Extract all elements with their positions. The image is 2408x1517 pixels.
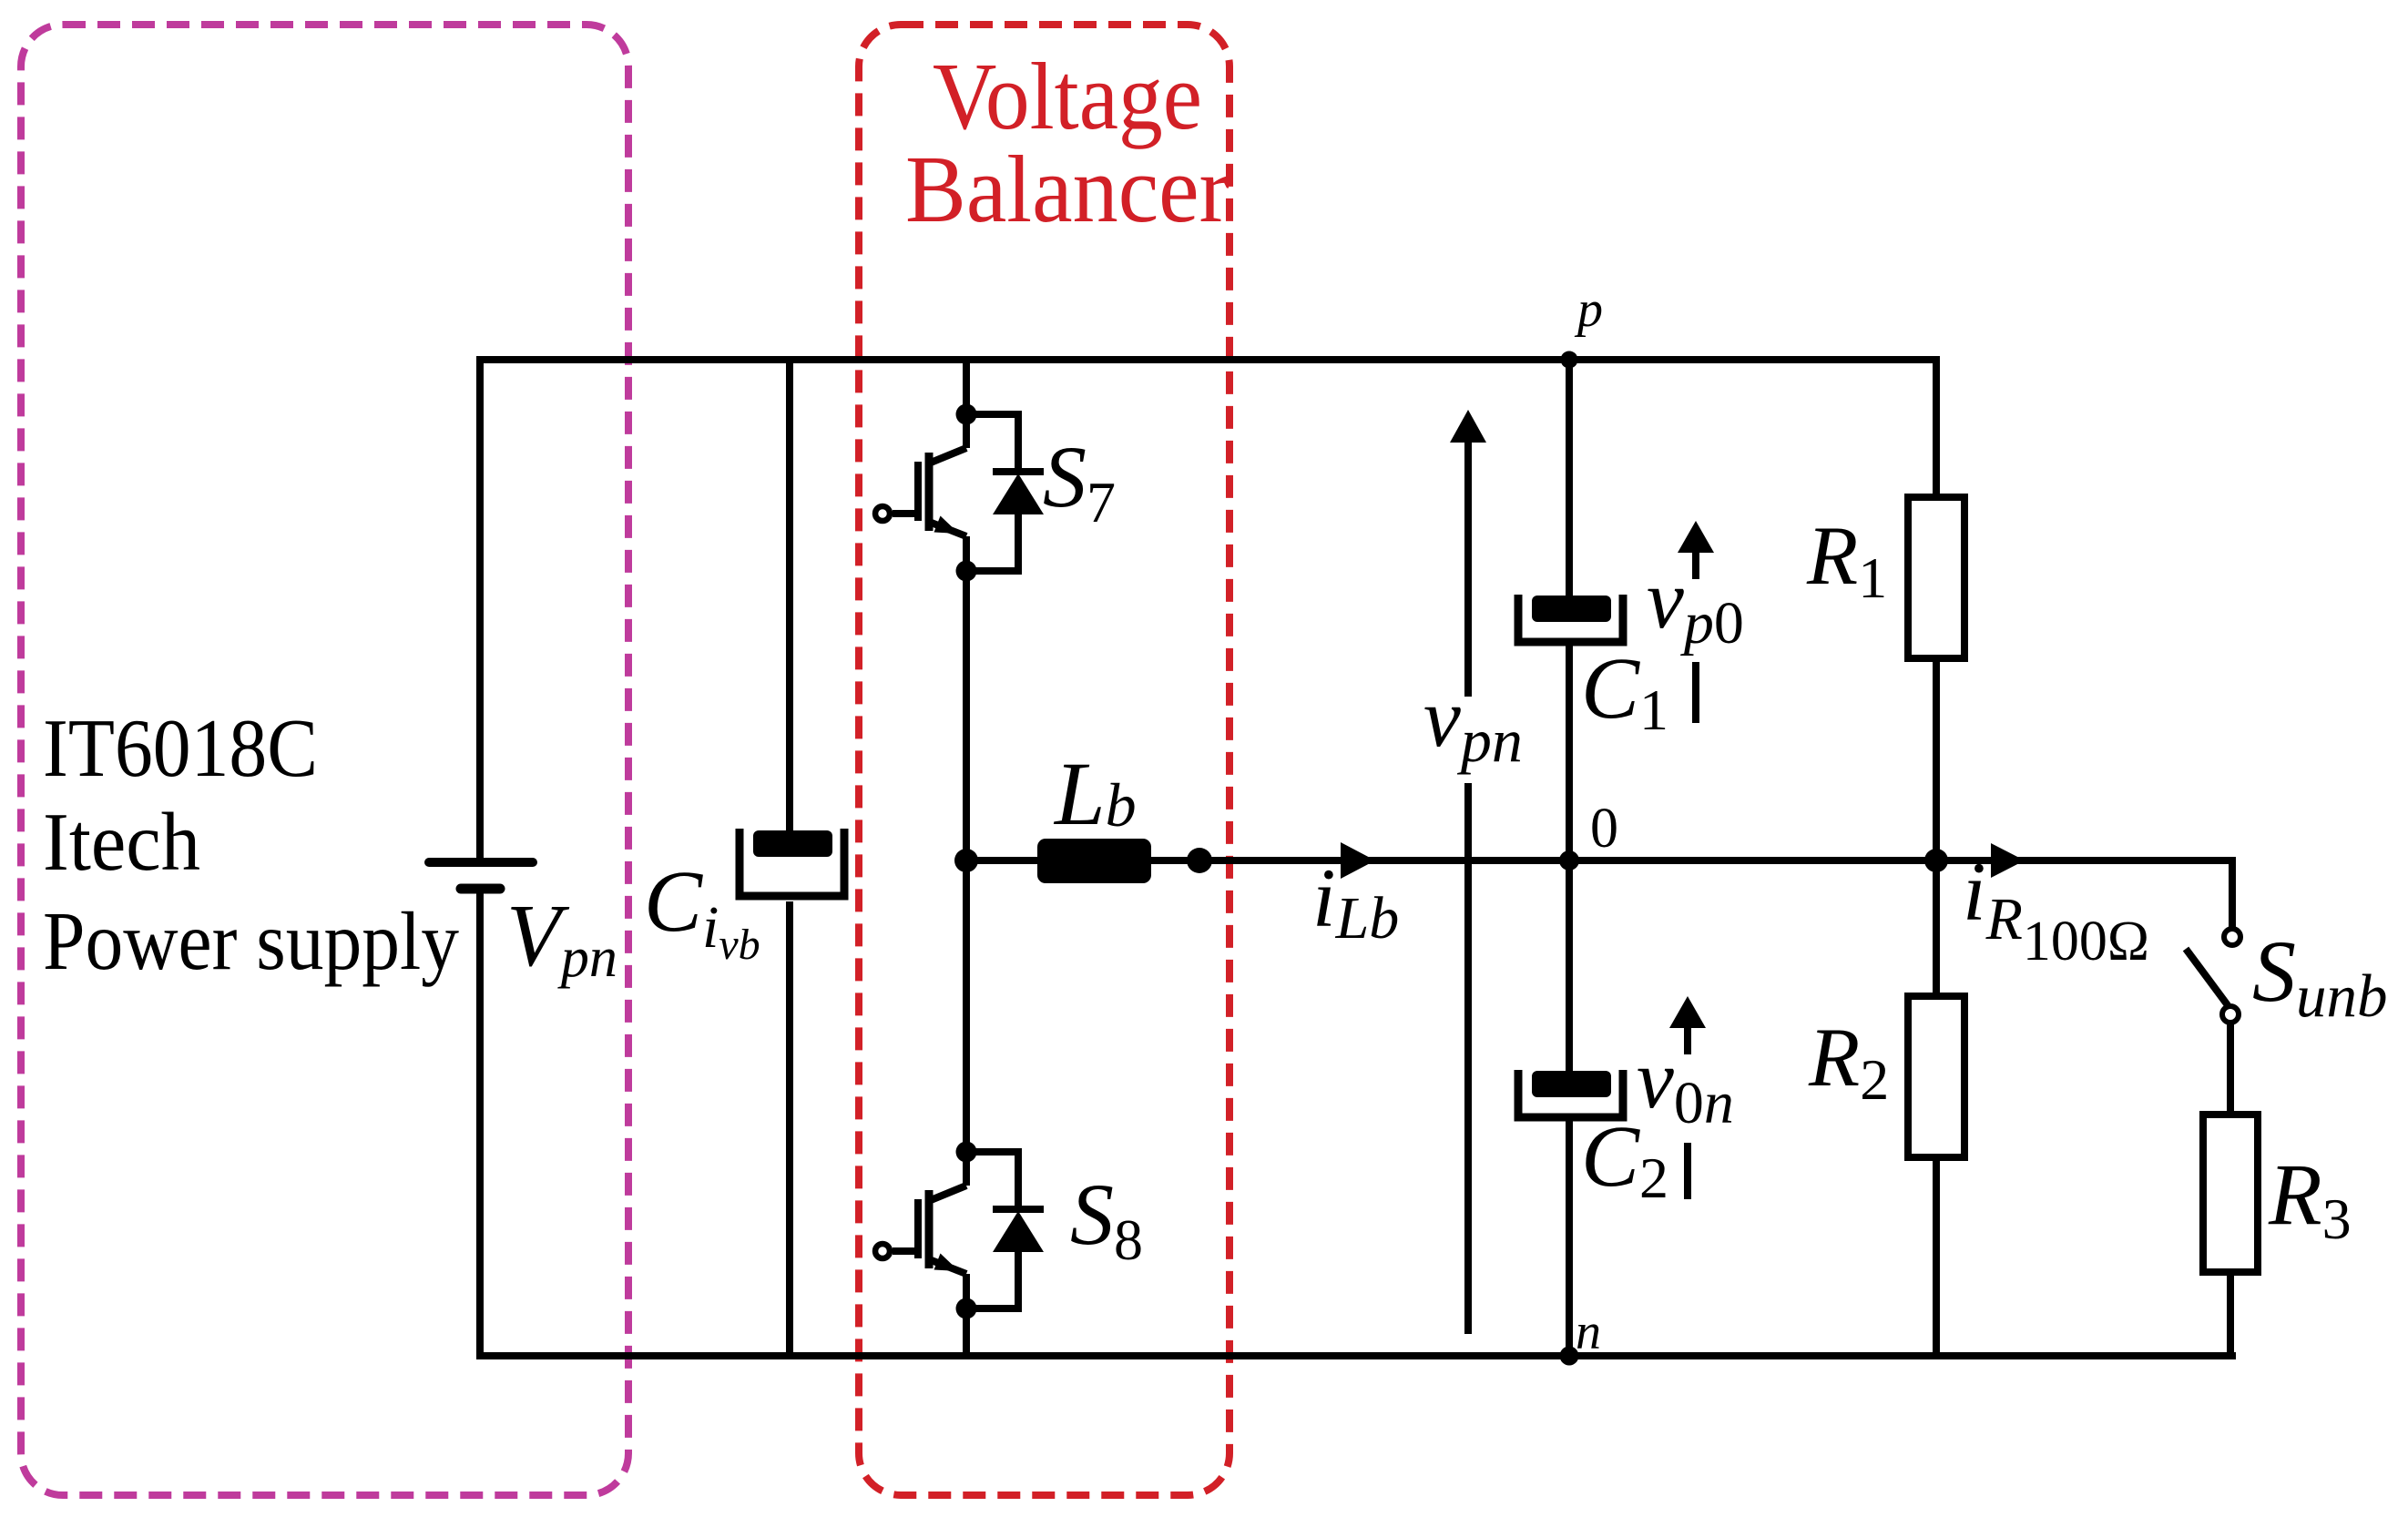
node p [1561, 351, 1578, 369]
transistor S8 IGBT with diode [875, 1142, 1044, 1319]
svg-text:n: n [1576, 1304, 1601, 1360]
voltage balancer dashed box [859, 25, 1230, 1495]
node dot IGBT mid junction [954, 849, 978, 872]
wire Civb branch bottom [786, 901, 793, 1356]
svg-text:p: p [1574, 281, 1603, 338]
wire mid rail left [966, 857, 1037, 864]
wire IGBT leg upper [963, 360, 970, 448]
transistor S7 IGBT with diode [875, 404, 1044, 582]
svg-text:0: 0 [1590, 798, 1618, 860]
node dot R junction [1924, 849, 1948, 872]
svg-text:Voltage: Voltage [933, 43, 1202, 149]
inductor Lb [1037, 839, 1151, 883]
switch Sunb [2186, 929, 2240, 1023]
wire R2 bottom [1933, 1157, 1940, 1356]
arrow vpn [1464, 443, 1472, 1334]
resistor R2 [1908, 996, 1964, 1157]
power supply dashed box [21, 25, 628, 1495]
wire R3 bottom [2227, 1272, 2234, 1356]
node 0 [1559, 850, 1579, 870]
arrow iLb [1341, 842, 1375, 879]
svg-text:IT6018C: IT6018C [43, 702, 318, 794]
wire IGBT leg middle [963, 536, 970, 1186]
arrow vp0 [1692, 550, 1699, 723]
svg-text:Balancer: Balancer [905, 136, 1230, 242]
capacitor C2 [1518, 860, 1623, 1356]
capacitor Civb [740, 829, 844, 896]
node dot Lb terminal [1187, 848, 1212, 873]
label Voltage Balancer [905, 43, 1230, 242]
node n [1560, 1347, 1579, 1366]
resistor R1 [1908, 497, 1964, 658]
wire R2 branch top [1933, 860, 1940, 996]
arrow v0n [1684, 1025, 1691, 1199]
resistor R3 [2203, 1115, 2258, 1272]
svg-text:Power supply: Power supply [43, 895, 459, 987]
label IT6018C Itech Power supply [43, 702, 459, 987]
wire switch to R3 [2227, 1023, 2234, 1115]
battery Vpn [429, 862, 533, 889]
capacitor C1 [1518, 360, 1623, 860]
wire Civb branch top [786, 360, 793, 831]
wire bottom bus n rail [480, 893, 2236, 1356]
wire IGBT leg lower [963, 1274, 970, 1356]
wire top bus p rail [480, 360, 1936, 858]
wire battery branch [476, 360, 484, 858]
wire mid rail right [1151, 860, 2232, 928]
wire R1 to mid [1933, 658, 1940, 860]
arrow iR100 [1991, 843, 2025, 878]
svg-text:Itech: Itech [43, 796, 200, 888]
